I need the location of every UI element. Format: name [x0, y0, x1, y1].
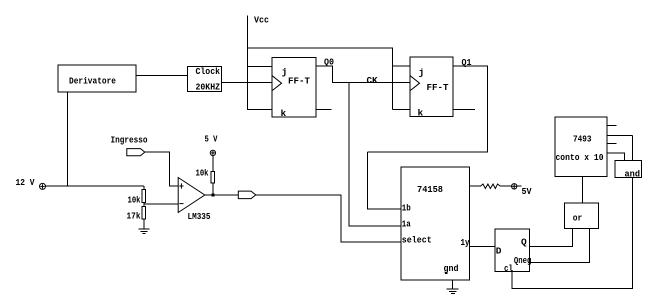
box Derivatore	[58, 65, 136, 92]
wire divider top lead	[143, 186, 145, 190]
wire FF2 input rail	[392, 48, 394, 110]
svg-text:D: D	[496, 246, 502, 257]
wire 5V circle stub	[517, 185, 522, 187]
wire Q to or gate	[530, 245, 574, 247]
wire FF1 k input	[247, 109, 272, 111]
Vcc rail	[247, 16, 249, 110]
resistor R zigzag to 5V	[480, 184, 500, 189]
IC 7493 box	[555, 117, 607, 177]
wire Derivatore to Clock	[136, 75, 188, 77]
svg-text:1a: 1a	[402, 219, 411, 230]
svg-text:Q: Q	[521, 236, 527, 247]
flip-flop U1 FF-T box	[272, 58, 316, 118]
wire and input drop left	[624, 153, 626, 160]
wire 12V to divider	[46, 185, 145, 187]
wire U2 k input	[393, 109, 411, 111]
svg-text:j: j	[282, 67, 288, 78]
wire select drop	[340, 195, 342, 243]
wire 7493 stub pin3	[607, 143, 617, 145]
svg-text:12 V: 12 V	[16, 177, 35, 188]
svg-text:j: j	[419, 67, 425, 78]
svg-text:k: k	[418, 108, 424, 119]
svg-text:CK: CK	[367, 75, 378, 86]
svg-text:Derivatore: Derivatore	[69, 76, 116, 87]
svg-text:k: k	[281, 108, 287, 119]
svg-text:Vcc: Vcc	[254, 15, 269, 26]
svg-text:and: and	[625, 169, 641, 180]
svg-text:5 V: 5 V	[205, 134, 218, 145]
wire divider mid node	[143, 203, 145, 207]
wire and output riser	[631, 177, 633, 289]
svg-text:10k: 10k	[196, 167, 209, 178]
svg-text:5V: 5V	[522, 186, 532, 197]
gate OR box	[564, 203, 598, 228]
flip-flop U4 D box	[495, 229, 530, 272]
svg-text:Ingresso: Ingresso	[111, 135, 148, 146]
wire output tag to select corner	[256, 194, 342, 196]
wire into op-amp minus input	[144, 203, 178, 205]
wire Derivatore output drop to 12V line	[67, 92, 69, 187]
wire Q1 drop	[487, 66, 489, 153]
wire CK line Q0 to U2 clock	[333, 82, 411, 84]
wire into 1a	[349, 225, 401, 227]
wire and input drop right	[631, 136, 633, 161]
gate AND box	[615, 160, 642, 177]
wire into op-amp plus input	[170, 185, 179, 187]
supply circle 5V right	[511, 184, 517, 190]
wire Q1 drop to 1b	[367, 152, 369, 210]
wire Q riser	[572, 228, 574, 246]
clock wedge U1	[272, 76, 281, 91]
svg-text:7493: 7493	[573, 134, 592, 145]
wire into select	[341, 241, 401, 243]
wire FF1 j input	[247, 66, 272, 68]
wire gnd stub 74158	[452, 280, 454, 289]
svg-text:or: or	[573, 213, 583, 224]
wire zigzag to 5V circle	[500, 185, 511, 187]
svg-text:1b: 1b	[402, 203, 411, 214]
wire resistor to output node	[212, 183, 214, 195]
supply circle 5V	[210, 150, 215, 155]
wire U1 k stub right	[316, 109, 332, 111]
wire U2 k stub right	[453, 109, 475, 111]
box Clock 20KHZ	[188, 67, 222, 92]
wire 17k to ground	[143, 219, 145, 229]
junction dot inside 74158	[445, 272, 448, 274]
wire Qneg riser	[589, 228, 591, 262]
supply circle 12V	[40, 183, 46, 189]
svg-text:10k: 10k	[128, 195, 141, 206]
svg-text:FF-T: FF-T	[288, 76, 310, 87]
wire 74158 to pullup resistor	[470, 185, 481, 187]
ground divider	[139, 229, 150, 234]
resistor 10k divider body	[142, 190, 145, 203]
wire Q1 out of U2	[453, 65, 488, 67]
junction dot output node	[211, 193, 214, 196]
svg-text:17k: 17k	[127, 211, 141, 222]
wire Q1 horizontal to left	[368, 151, 488, 153]
svg-text:FF-T: FF-T	[427, 82, 449, 93]
svg-text:74158: 74158	[417, 184, 443, 195]
wire Q0 drop	[332, 66, 334, 83]
svg-text:Clock: Clock	[196, 66, 221, 77]
svg-text:20KHZ: 20KHZ	[196, 81, 221, 92]
op-amp minus sign	[179, 203, 183, 205]
IC 74158 box	[401, 167, 470, 280]
wire 5V to resistor	[212, 156, 214, 172]
tag Ingresso pointer	[127, 149, 145, 156]
wire 7493 pin2 to and	[607, 135, 633, 137]
flip-flop U2 FF-T box	[410, 57, 453, 117]
wire Ingresso drop	[169, 152, 171, 187]
ground 74158	[447, 289, 459, 293]
wire 7493 pin4 to and	[607, 152, 625, 154]
wire op-amp output	[205, 194, 239, 196]
wire Qneg to or gate	[530, 261, 591, 263]
svg-text:select: select	[402, 235, 432, 246]
wire cl bottom run	[512, 288, 633, 290]
wire Vcc rail to FF2 rail (top)	[247, 47, 393, 49]
wire Q0 out of U1	[316, 65, 333, 67]
wire Clock to FF1 clock input	[222, 82, 273, 84]
svg-text:LM335: LM335	[188, 211, 211, 222]
wire into 1b	[368, 208, 402, 210]
resistor 17k body	[142, 207, 145, 220]
wire 1y to D	[470, 245, 496, 247]
tag output pointer	[238, 191, 256, 199]
wire CK drop to 1a	[348, 83, 350, 227]
clock wedge U2	[410, 76, 419, 91]
svg-text:conto x 10: conto x 10	[556, 152, 604, 163]
op-amp U3 LM335	[178, 178, 205, 213]
svg-text:Qneg: Qneg	[514, 255, 532, 266]
wire Ingresso tag to corner	[145, 151, 170, 153]
op-amp plus sign	[179, 183, 183, 188]
wire cl drop	[511, 272, 513, 290]
resistor 10k pullup body	[211, 171, 215, 183]
wire 7493 stub pin1	[607, 124, 617, 126]
svg-text:1y: 1y	[461, 237, 470, 248]
wire U2 j input	[393, 65, 411, 67]
wire 7493 to or gate	[581, 177, 583, 204]
